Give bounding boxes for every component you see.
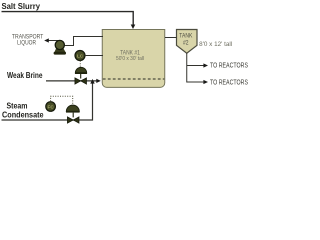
level controller LC [75,51,85,61]
arrow: to transport liquor [44,38,49,42]
wire: tank T1 outlet to pump suction [65,37,104,46]
signal: LC to weak brine valve (dotted) [79,61,81,67]
svg-text:LC: LC [77,53,84,58]
arrow: weak brine into tank T1 [96,79,101,83]
svg-text:TANK: TANK [179,34,192,40]
wire: steam condensate line with riser to weak brine line [2,84,93,121]
tank T1 [102,30,165,88]
tank T2 (funnel bottom) [177,30,198,54]
signal: FC to steam condensate valve (dotted) [51,96,73,105]
wire: weak brine line [46,80,97,82]
svg-text:FC: FC [48,104,55,109]
arrow: salt slurry into tank T1 top [131,25,136,30]
svg-text:50'0 x 30' tall: 50'0 x 30' tall [116,56,144,62]
tank T1 level dashed line [103,78,165,80]
svg-text:Condensate: Condensate [2,110,44,120]
wire: LC tap to tank T1 [85,55,103,57]
svg-text:TO REACTORS: TO REACTORS [210,62,248,69]
svg-text:Weak Brine: Weak Brine [7,70,43,80]
flow controller FC [46,102,56,112]
svg-text:#2: #2 [183,40,189,46]
svg-text:TO REACTORS: TO REACTORS [210,79,248,86]
control valve V2 (steam condensate) [66,105,80,123]
svg-text:LIQUOR: LIQUOR [17,39,36,46]
control valve V1 (weak brine) [75,67,87,84]
svg-text:Salt Slurry: Salt Slurry [2,1,41,11]
wire: salt slurry feed line into tank T1 [2,12,134,26]
wire: tank T1 to tank T2 [165,37,177,39]
arrow: steam condensate up into weak brine line [90,79,94,84]
wire: tank T2 outlet manifold to reactors [187,53,204,82]
arrow: to reactors (lower) [203,80,208,84]
pump P1 [54,40,66,54]
arrow: to reactors (upper) [203,63,208,67]
wire: pump discharge to transport liquor [48,40,60,42]
svg-text:8'0 x 12' tall: 8'0 x 12' tall [199,42,232,48]
